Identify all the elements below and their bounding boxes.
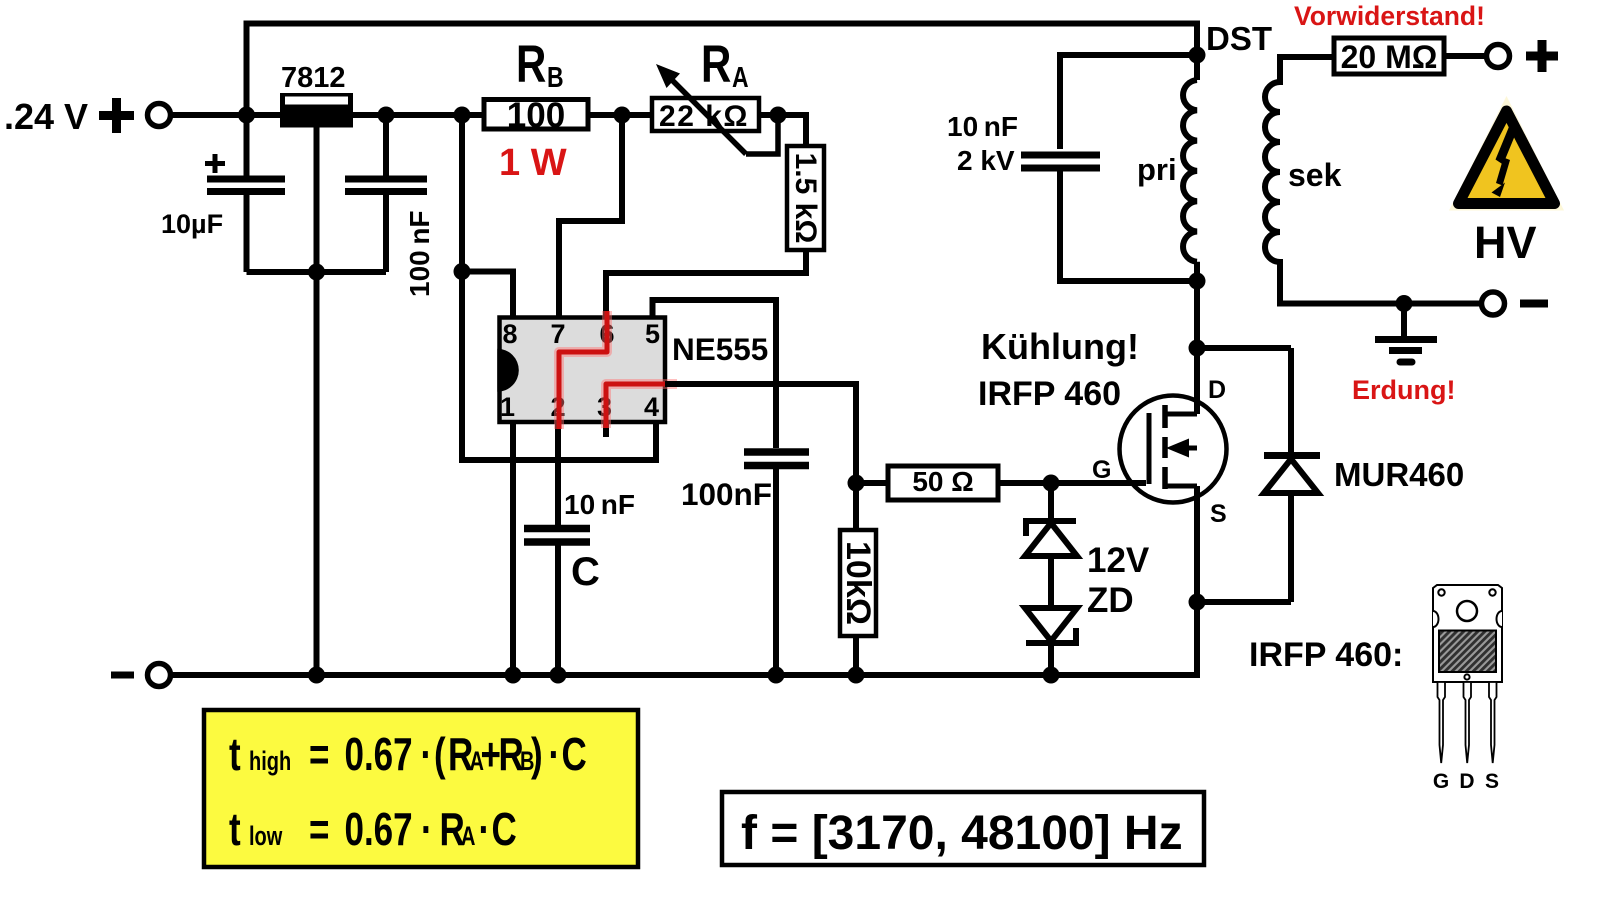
svg-text:0.67: 0.67 xyxy=(345,803,413,855)
wire sek top to 20M xyxy=(1280,57,1333,85)
resistor RB xyxy=(484,36,588,184)
package TO-247 IRFP460 xyxy=(1433,585,1502,763)
resistor 1.5k xyxy=(787,146,824,250)
transistor Q1 IRFP460 mosfet xyxy=(1120,348,1227,602)
lightning bolt xyxy=(1492,126,1518,198)
wire input to RB xyxy=(173,112,482,118)
svg-text:ZD: ZD xyxy=(1087,581,1134,620)
node junction 7812 gnd xyxy=(308,264,325,281)
capacitor 100nF pin5 xyxy=(681,452,809,675)
svg-text:Vorwiderstand!: Vorwiderstand! xyxy=(1294,1,1485,31)
minus dash bottom xyxy=(111,672,134,679)
regulator 7812 xyxy=(280,62,353,675)
terminal HV minus xyxy=(1482,292,1505,315)
wire caps to ground bottom xyxy=(247,269,387,275)
node junction output xyxy=(848,475,865,492)
svg-text:4: 4 xyxy=(644,392,659,422)
svg-text:Erdung!: Erdung! xyxy=(1352,375,1455,405)
svg-text:C: C xyxy=(492,803,517,855)
svg-text:t: t xyxy=(229,803,241,855)
node junction RB-RA xyxy=(614,107,631,124)
frequency formula box xyxy=(722,792,1204,865)
svg-text:DST: DST xyxy=(1206,20,1272,57)
wire RB to RA xyxy=(588,112,652,118)
node junction rail 10k xyxy=(848,667,865,684)
node junction rail ZD xyxy=(1043,667,1060,684)
svg-text:·: · xyxy=(549,728,561,780)
svg-text:100 nF: 100 nF xyxy=(404,210,435,297)
node junction Vcc xyxy=(454,107,471,124)
svg-text:G: G xyxy=(1092,456,1111,484)
potentiometer RA xyxy=(652,36,778,154)
node junction input xyxy=(238,107,255,124)
svg-text:2 kV: 2 kV xyxy=(957,145,1015,176)
svg-text:50 Ω: 50 Ω xyxy=(912,466,973,497)
node junction 7812 out xyxy=(378,107,395,124)
svg-text:100: 100 xyxy=(507,96,565,135)
warning triangle HV glow xyxy=(1449,96,1564,211)
svg-text:7812: 7812 xyxy=(281,62,346,94)
svg-text:5: 5 xyxy=(645,319,660,349)
svg-text:1 W: 1 W xyxy=(499,142,567,184)
node junction source xyxy=(1189,594,1206,611)
svg-text:100nF: 100nF xyxy=(681,476,772,512)
svg-text:C: C xyxy=(562,728,587,780)
svg-text:7: 7 xyxy=(550,319,565,349)
node junction rail 100nF xyxy=(768,667,785,684)
svg-text:20 MΩ: 20 MΩ xyxy=(1341,39,1438,75)
svg-text:S: S xyxy=(1210,500,1227,528)
svg-text:1: 1 xyxy=(500,392,515,422)
warning triangle HV xyxy=(1459,111,1555,204)
node junction rail capC xyxy=(550,667,567,684)
red trace pin6-pin2 glow xyxy=(559,311,607,429)
node junction earth xyxy=(1396,295,1413,312)
wire pin8 branch xyxy=(462,272,513,318)
svg-text:A: A xyxy=(732,60,749,93)
node junction rail pin1 xyxy=(505,667,522,684)
svg-text:R: R xyxy=(701,36,731,95)
svg-text:·: · xyxy=(421,803,433,855)
wire bottom rail xyxy=(173,602,1197,675)
svg-text:): ) xyxy=(531,728,543,780)
red trace pin3-out xyxy=(606,384,677,428)
svg-text:D: D xyxy=(1208,376,1226,404)
diode MUR460 xyxy=(1264,348,1464,602)
svg-text:8: 8 xyxy=(502,319,517,349)
capacitor 10uF xyxy=(161,115,285,272)
svg-text:t: t xyxy=(229,728,241,780)
svg-text:10 nF: 10 nF xyxy=(947,111,1018,142)
svg-text:(: ( xyxy=(434,728,446,780)
svg-text:=: = xyxy=(309,803,329,855)
transformer DST secondary xyxy=(1265,82,1342,262)
wire 1.5k to pin6 xyxy=(606,250,806,317)
svg-text:R: R xyxy=(516,36,546,95)
node junction RA wiper xyxy=(770,107,787,124)
svg-text:10 nF: 10 nF xyxy=(564,489,635,520)
wire pin1 to ground xyxy=(510,424,516,675)
svg-text:high: high xyxy=(249,746,291,775)
svg-text:IRFP 460: IRFP 460 xyxy=(978,375,1121,413)
node junction pin8 xyxy=(454,263,471,280)
svg-text:f = [3170, 48100] Hz: f = [3170, 48100] Hz xyxy=(741,807,1183,860)
svg-text:B: B xyxy=(547,60,564,93)
wire pin3 output to gate node xyxy=(665,384,856,483)
capacitor C 10nF xyxy=(524,489,635,675)
svg-text:pri: pri xyxy=(1137,152,1177,187)
svg-text:Kühlung!: Kühlung! xyxy=(981,326,1139,367)
svg-text:NE555: NE555 xyxy=(672,331,768,367)
svg-text:12V: 12V xyxy=(1087,541,1150,580)
svg-text:S: S xyxy=(1485,770,1499,793)
timing formula box xyxy=(204,710,638,867)
wire pin2 to cap C xyxy=(555,424,561,529)
red trace pin6-pin2 xyxy=(559,311,607,429)
resistor 50R xyxy=(856,466,1146,500)
wire RA to 1.5k xyxy=(759,115,806,146)
svg-text:HV: HV xyxy=(1474,217,1537,268)
transformer DST primary xyxy=(1137,80,1197,348)
IC NE555 xyxy=(497,318,768,423)
svg-text:22 kΩ: 22 kΩ xyxy=(659,100,749,133)
svg-text:0.67: 0.67 xyxy=(345,728,413,780)
svg-text:=: = xyxy=(309,728,329,780)
wire drain junction to MUR xyxy=(1197,345,1291,351)
svg-text:.24 V: .24 V xyxy=(4,96,88,137)
svg-text:A: A xyxy=(461,821,475,850)
svg-text:C: C xyxy=(571,550,600,594)
terminal 24V xyxy=(148,104,171,127)
svg-text:G: G xyxy=(1433,770,1449,793)
node junction rail 7812gnd xyxy=(308,667,325,684)
node junction gate xyxy=(1043,475,1060,492)
terminal minus bottom xyxy=(148,664,171,687)
svg-text:MUR460: MUR460 xyxy=(1334,456,1464,493)
svg-text:IRFP 460:: IRFP 460: xyxy=(1249,636,1403,674)
wire source junction to MUR xyxy=(1197,599,1291,605)
red trace pin3-out glow xyxy=(606,384,677,428)
zener diode ZD2 xyxy=(1025,541,1150,675)
resistor 20M xyxy=(1334,38,1484,75)
svg-text:10µF: 10µF xyxy=(161,209,223,239)
ground earth symbol xyxy=(1375,303,1437,362)
minus symbol HV xyxy=(1520,300,1548,308)
plus polarity symbol 24V xyxy=(99,98,134,133)
svg-text:·: · xyxy=(479,803,491,855)
wire pin3 stub xyxy=(603,424,609,437)
terminal HV plus xyxy=(1487,45,1510,68)
capacitor 10nF 2kV xyxy=(947,55,1197,281)
svg-text:low: low xyxy=(249,821,283,850)
node junction drain xyxy=(1189,340,1206,357)
node junction DST top xyxy=(1189,47,1206,64)
wire pin5 loop xyxy=(653,300,777,448)
wire top rail xyxy=(247,24,1198,116)
resistor 10k xyxy=(839,483,877,675)
svg-text:1.5 kΩ: 1.5 kΩ xyxy=(789,153,822,244)
plus symbol HV xyxy=(1526,40,1558,72)
capacitor 100nF input xyxy=(345,115,435,297)
svg-text:·: · xyxy=(421,728,433,780)
svg-text:10kΩ: 10kΩ xyxy=(839,541,877,625)
wire junction to pin7 xyxy=(559,115,622,317)
svg-text:D: D xyxy=(1459,770,1474,793)
node junction DST bottom xyxy=(1189,273,1206,290)
svg-text:sek: sek xyxy=(1288,157,1342,193)
wire sek bottom xyxy=(1280,259,1481,304)
zener diode ZD1 xyxy=(1025,483,1077,608)
wire Vcc to NE555 pin8 xyxy=(462,115,656,460)
